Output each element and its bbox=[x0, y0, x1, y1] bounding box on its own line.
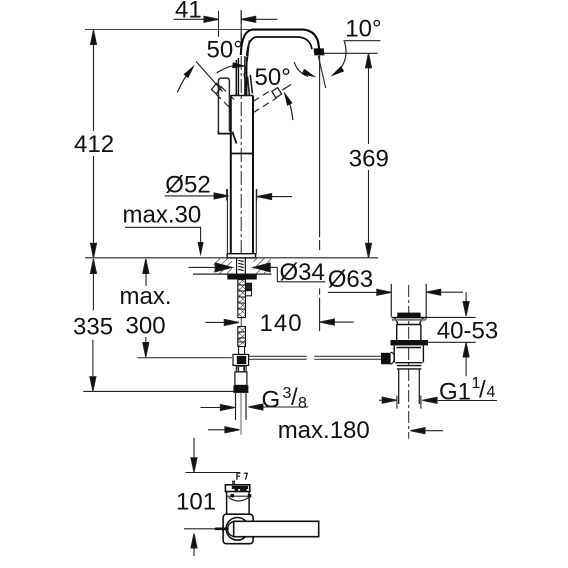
spout pipe bundle bbox=[236, 40, 252, 95]
side fixing box on shank bbox=[246, 283, 252, 290]
svg-text:G1: G1 bbox=[439, 378, 471, 405]
dimension 101 lower arrow and ref bbox=[184, 529, 216, 556]
10 deg left arc with arrow bbox=[294, 62, 308, 76]
top view base plate bbox=[223, 514, 253, 544]
faucet base flange bbox=[227, 254, 255, 258]
dimension 335 line with arrows bbox=[90, 259, 97, 391]
50 deg lower rotation arc with arrow bbox=[288, 98, 293, 120]
svg-text:10°: 10° bbox=[345, 15, 381, 42]
spout inner profile bbox=[247, 37, 312, 56]
pop-up rod left reference line bbox=[137, 357, 232, 359]
faucet body outline bbox=[231, 96, 253, 254]
handle rotated upper-left dashed outline bbox=[216, 87, 234, 108]
max.180 arrows bbox=[208, 427, 443, 434]
G 3/8 underline and arrows bbox=[201, 404, 309, 411]
spout outer profile bbox=[241, 30, 319, 55]
drain upper body bbox=[397, 325, 421, 341]
connector below tee bbox=[236, 366, 246, 372]
faucet centerline bbox=[240, 10, 242, 256]
drain plug cap bbox=[397, 313, 420, 318]
drain flange bbox=[392, 318, 427, 325]
dimension 369 line with arrows bbox=[366, 53, 372, 257]
mounting nut under deck bbox=[227, 274, 256, 279]
drain lower body bbox=[394, 345, 423, 362]
40-53 reference lines and arrows bbox=[425, 292, 476, 376]
50 deg upper rotation arc right with arrow bbox=[217, 66, 234, 73]
svg-text:369: 369 bbox=[349, 145, 389, 172]
svg-text:140: 140 bbox=[260, 310, 303, 337]
handle rotated position dashed upper-left, axis line bbox=[196, 61, 223, 91]
shank thread below nut (cross-hatch column) bbox=[238, 280, 246, 318]
svg-text:max.180: max.180 bbox=[278, 417, 370, 444]
handle rotated position lower-right, axis line bbox=[282, 85, 291, 91]
10 deg slanted outlet axis line bbox=[318, 56, 325, 88]
svg-text:G: G bbox=[262, 387, 281, 414]
svg-text:4: 4 bbox=[487, 384, 496, 401]
svg-text:8: 8 bbox=[298, 395, 307, 412]
drain centerline bbox=[408, 285, 410, 439]
outlet drop vertical line bbox=[319, 54, 321, 331]
svg-text:412: 412 bbox=[74, 131, 114, 158]
countertop deck section top line bbox=[85, 257, 378, 259]
rod tee fitting at faucet bbox=[233, 354, 249, 365]
top view lever butt arc bbox=[228, 522, 234, 537]
handle rotated lower-right dashed outline bbox=[253, 90, 276, 113]
handle lever solid position bbox=[218, 78, 229, 132]
handle rotated lower-right end cap bbox=[272, 88, 282, 98]
G1 1/4 underline with arrow bbox=[379, 397, 497, 403]
wire: top reference line at spout top level bbox=[85, 29, 249, 31]
drain seal ring bbox=[391, 340, 429, 345]
dimension 101 stem upper with arrow bbox=[186, 438, 240, 473]
svg-text:50°: 50° bbox=[255, 64, 291, 91]
drain tailpipe bbox=[399, 369, 420, 404]
top view body outline bbox=[227, 492, 250, 519]
dimension 140 arrows bbox=[206, 319, 354, 325]
pop-up rod horizontal bbox=[248, 356, 381, 359]
svg-text:/: / bbox=[479, 377, 486, 404]
deck hatching right bbox=[253, 258, 270, 273]
spout outlet face bbox=[314, 48, 325, 55]
diameter 63 leader and arrows bbox=[328, 289, 463, 295]
svg-text:max.30: max.30 bbox=[123, 202, 202, 229]
svg-text:41: 41 bbox=[175, 0, 202, 24]
max.30 leader line with arrow bbox=[125, 227, 201, 243]
tailpipe measure ticks bbox=[397, 396, 421, 409]
50 deg upper rotation arc left with arrow bbox=[177, 70, 190, 93]
top view pivot circle bbox=[226, 518, 249, 541]
drain coupling rings bbox=[395, 363, 422, 369]
top view outlet cap bbox=[225, 485, 249, 492]
drain flange extension lines bbox=[391, 284, 426, 320]
dimension max 300 line with arrows bbox=[143, 259, 149, 357]
top view lever bbox=[234, 521, 319, 536]
faucet base shell bbox=[227, 189, 256, 254]
top view spout arcs bbox=[228, 496, 249, 501]
dimension 41 line and arrows bbox=[174, 11, 278, 41]
countertop deck section bottom line bbox=[193, 273, 272, 275]
svg-text:300: 300 bbox=[126, 313, 166, 340]
svg-text:max.: max. bbox=[120, 283, 172, 310]
handle rotated upper-left end cap bbox=[212, 83, 222, 94]
supply hoses bbox=[236, 393, 247, 420]
diameter 52 leader with arrows bbox=[165, 189, 293, 201]
svg-text:Ø52: Ø52 bbox=[165, 172, 210, 199]
svg-text:101: 101 bbox=[176, 488, 216, 515]
svg-text:335: 335 bbox=[73, 314, 113, 341]
deck hatching left bbox=[214, 258, 232, 273]
shank neck above tee bbox=[239, 347, 245, 355]
threaded shank through deck bbox=[237, 258, 246, 274]
335 bottom reference line bbox=[83, 390, 236, 392]
drain side port bbox=[381, 353, 391, 365]
10 deg reference lines bbox=[343, 40, 380, 42]
svg-text:50°: 50° bbox=[207, 37, 243, 64]
top view outlet tip marks bbox=[232, 473, 247, 484]
dimension diameter 34 arrows bbox=[189, 263, 278, 272]
svg-text:40-53: 40-53 bbox=[437, 318, 498, 345]
hose nut bbox=[233, 385, 248, 393]
top view left nub bbox=[216, 527, 228, 530]
svg-text:Ø63: Ø63 bbox=[328, 266, 373, 293]
10 deg right arc with arrow bbox=[339, 41, 346, 70]
dimension 412 line with arrows bbox=[91, 30, 97, 258]
